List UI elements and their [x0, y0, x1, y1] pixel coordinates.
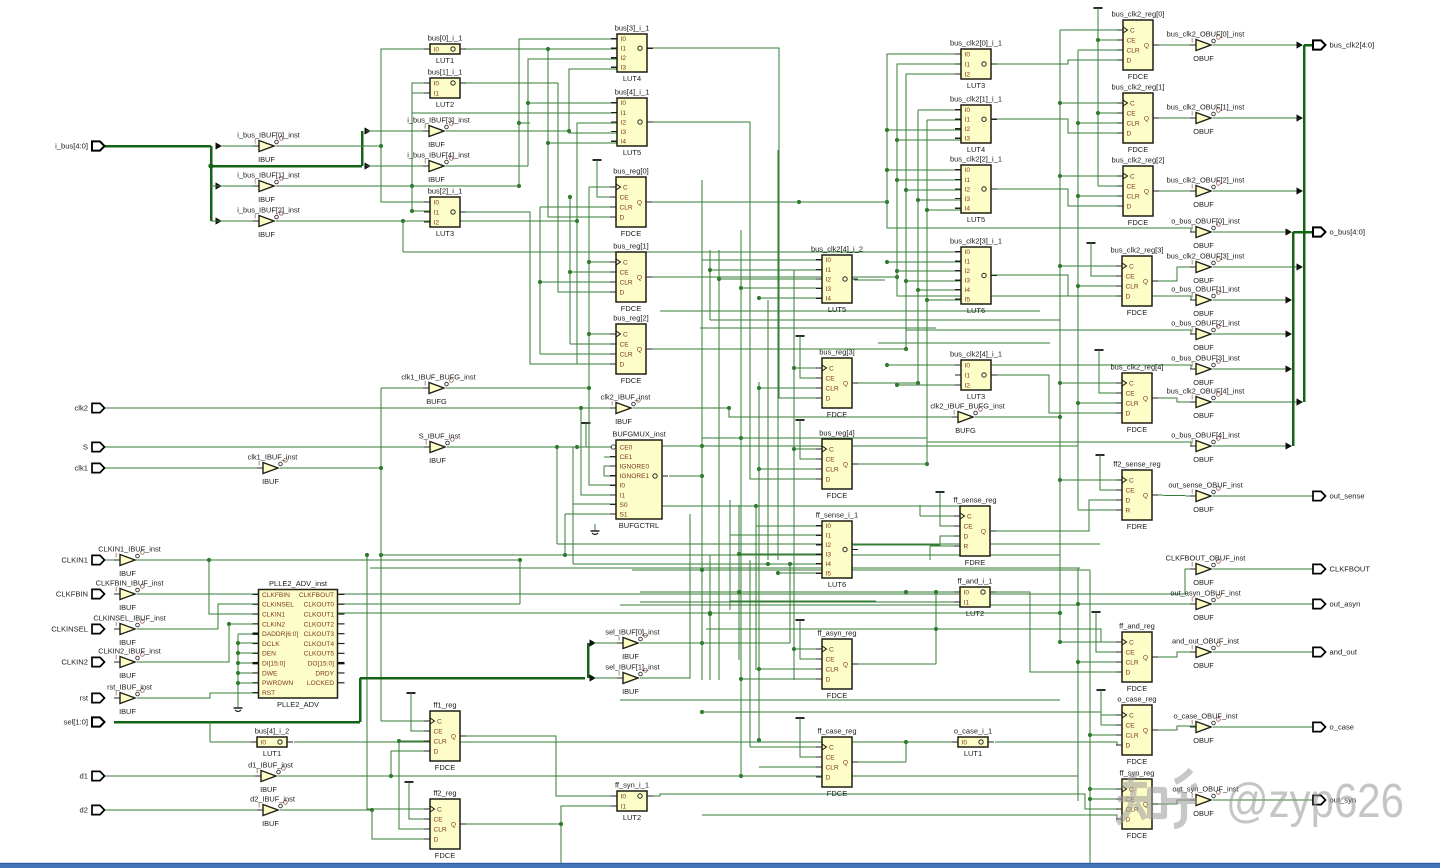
svg-text:R: R — [964, 543, 969, 550]
junction — [1076, 660, 1080, 664]
wire stub I2 feed merged — [556, 543, 558, 545]
junction — [1088, 787, 1092, 791]
junction — [1096, 38, 1100, 42]
wire to ff2_reg CLR — [399, 741, 430, 829]
svg-text:BUFG: BUFG — [426, 397, 447, 406]
svg-text:LUT2: LUT2 — [623, 813, 641, 822]
svg-text:CLKFBOUT: CLKFBOUT — [1330, 565, 1371, 574]
junction — [379, 553, 383, 557]
svg-text:bus_clk2[4]_i_1: bus_clk2[4]_i_1 — [950, 350, 1002, 359]
svg-text:ff2_reg: ff2_reg — [433, 789, 456, 798]
svg-text:I2: I2 — [965, 268, 971, 275]
svg-text:I: I — [1191, 225, 1193, 232]
wire tie to ff1_reg CE — [411, 693, 430, 731]
svg-text:C: C — [829, 744, 834, 751]
junction — [934, 627, 938, 631]
buffer and_out_OBUF_inst (OBUF) — [1172, 637, 1239, 671]
svg-text:I: I — [254, 139, 256, 146]
svg-text:out_asyn: out_asyn — [1330, 600, 1361, 609]
svg-text:I2: I2 — [621, 55, 627, 62]
svg-text:ff_and_reg: ff_and_reg — [1119, 622, 1155, 631]
svg-text:I: I — [425, 440, 427, 447]
svg-text:IBUF: IBUF — [428, 175, 445, 184]
svg-text:D: D — [620, 289, 625, 296]
svg-text:CE: CE — [1127, 110, 1137, 117]
wire to bus_reg[3] C — [794, 367, 822, 369]
wire clock rail x1060 — [1059, 30, 1061, 642]
port out_syn — [1313, 795, 1356, 804]
junction — [236, 641, 240, 645]
svg-text:IGNORE1: IGNORE1 — [620, 473, 650, 480]
wire to bus_clk2[1]_i_1 I3 — [897, 139, 961, 141]
FDCE bus_clk2_reg[3] — [1111, 246, 1164, 317]
wire to BUFGMUX S1 — [565, 513, 616, 515]
wire to bus[3]_i_1 I3 — [569, 69, 617, 131]
wire clk2 from port to IBUF — [104, 407, 616, 409]
svg-text:CLKINSEL_IBUF_inst: CLKINSEL_IBUF_inst — [93, 614, 165, 623]
wire to o_bus_OBUF[0] — [887, 202, 1196, 232]
svg-text:i_bus_IBUF[0]_inst: i_bus_IBUF[0]_inst — [237, 131, 299, 140]
junction — [559, 822, 563, 826]
wire long y446 — [620, 445, 1078, 447]
svg-text:IBUF: IBUF — [622, 652, 639, 661]
svg-text:d1: d1 — [80, 772, 88, 781]
svg-text:I4: I4 — [965, 206, 971, 213]
svg-text:CLR: CLR — [1126, 283, 1139, 290]
wire clk1 BUFG out — [446, 387, 589, 389]
arrow into o_bus bus — [1286, 442, 1293, 449]
LUT3 bus_clk2[0]_i_1 — [950, 39, 1002, 90]
svg-text:I1: I1 — [965, 61, 971, 68]
port i_bus[4:0] — [55, 141, 104, 150]
wire CLKIN2 to PLLE2 — [137, 624, 258, 662]
svg-text:CE: CE — [1127, 37, 1137, 44]
svg-text:I: I — [254, 179, 256, 186]
svg-text:CE: CE — [1126, 722, 1136, 729]
junction — [389, 774, 393, 778]
junction — [727, 406, 731, 410]
svg-text:C: C — [623, 331, 628, 338]
wire bus_clk2_reg[1] Q to OBUF — [1153, 117, 1196, 119]
buffer clk2_IBUF_inst (IBUF) — [601, 393, 651, 427]
svg-text:bus_clk2_reg[2]: bus_clk2_reg[2] — [1112, 156, 1165, 165]
svg-text:CLR: CLR — [1127, 47, 1140, 54]
wire to bus_clk2[2]_i_1 I0 — [887, 169, 961, 171]
wire sel_IBUF[0] out — [640, 642, 702, 644]
wire BUFGMUX IGNORE1 stub — [604, 475, 616, 477]
wire long y328 — [700, 327, 936, 329]
wire long y506 — [620, 505, 960, 507]
junction — [757, 467, 761, 471]
svg-text:bus_clk2[3]_i_1: bus_clk2[3]_i_1 — [950, 237, 1002, 246]
svg-text:FDCE: FDCE — [435, 851, 455, 860]
svg-text:I: I — [1191, 260, 1193, 267]
junction — [1076, 194, 1080, 198]
svg-text:I: I — [1191, 184, 1193, 191]
svg-text:FDCE: FDCE — [827, 410, 847, 419]
wire ff_asyn Q loop — [935, 592, 937, 664]
wire vertical x403 — [402, 221, 404, 252]
junction — [379, 144, 383, 148]
wire long y544 (ff_sense I2 feed) — [557, 543, 1100, 545]
svg-text:and_out: and_out — [1330, 648, 1358, 657]
wire to bus_clk2[4]_i_2 I3 — [741, 287, 822, 289]
svg-text:D: D — [826, 395, 831, 402]
FDCE o_case_reg — [1116, 695, 1158, 766]
svg-text:I3: I3 — [826, 286, 832, 293]
junction — [568, 195, 572, 199]
svg-text:FDCE: FDCE — [1128, 145, 1148, 154]
wire mesh vertical x918 — [917, 110, 919, 383]
svg-text:bus_clk2[4]_i_2: bus_clk2[4]_i_2 — [811, 245, 863, 254]
svg-text:S: S — [83, 443, 88, 452]
junction — [788, 562, 792, 566]
buffer CLKIN2_IBUF_inst (IBUF) — [98, 647, 160, 681]
junction — [587, 260, 591, 264]
wire stub — [459, 206, 461, 208]
junction — [766, 562, 770, 566]
junction — [397, 739, 401, 743]
svg-text:I0: I0 — [965, 51, 971, 58]
wire d1 to ff1_reg D — [391, 751, 430, 776]
wire bus[3]_i_1 O to bus_reg[3] D — [648, 48, 822, 398]
junction — [754, 504, 758, 508]
port out_asyn — [1313, 599, 1360, 608]
wire long y815 to ff_syn_reg D — [702, 815, 1122, 819]
arrow into o_bus bus — [1286, 365, 1293, 372]
wire to bus[4]_i_1 I1 — [412, 112, 617, 114]
wire into bus[4]_i_2 — [210, 741, 257, 743]
svg-text:CE: CE — [1127, 183, 1137, 190]
svg-text:CLKFBIN_IBUF_inst: CLKFBIN_IBUF_inst — [96, 579, 164, 588]
svg-text:bus_reg[2]: bus_reg[2] — [613, 314, 648, 323]
junction — [895, 383, 899, 387]
svg-text:CLKIN1: CLKIN1 — [262, 611, 285, 618]
svg-text:C: C — [829, 365, 834, 372]
wire to bus_reg[3] CLR — [759, 387, 822, 389]
wire to ff_sense_reg R — [930, 545, 960, 547]
junction — [885, 168, 889, 172]
svg-text:CE: CE — [620, 341, 630, 348]
wire to ff_case_reg D — [741, 775, 822, 777]
wire sel bus from port — [114, 721, 360, 724]
svg-text:I0: I0 — [621, 36, 627, 43]
svg-text:bus_reg[1]: bus_reg[1] — [613, 242, 648, 251]
junction — [546, 141, 550, 145]
wire o_case_i_1 O to o_case_reg D — [995, 742, 1122, 745]
svg-text:I0: I0 — [826, 523, 832, 530]
buffer sel_IBUF[0]_inst (IBUF) — [605, 628, 659, 662]
wire to bus[1]_i_1 I0 — [412, 83, 430, 186]
junction — [885, 128, 889, 132]
svg-text:D: D — [1127, 130, 1132, 137]
buffer CLKFBOUT_OBUF_inst (OBUF) — [1166, 554, 1246, 588]
BUFGCTRL BUFGMUX_inst — [610, 430, 668, 530]
wire to bus_clk2_reg[0] C — [1060, 29, 1123, 31]
svg-text:bus_clk2_OBUF[2]_inst: bus_clk2_OBUF[2]_inst — [1167, 176, 1245, 185]
LUT2 bus[1]_i_1 — [424, 68, 466, 109]
wire long y320 — [710, 319, 1060, 321]
svg-text:i_bus[4:0]: i_bus[4:0] — [55, 142, 88, 151]
svg-text:bus_clk2_reg[1]: bus_clk2_reg[1] — [1112, 83, 1165, 92]
wire clk rail x589 — [588, 187, 590, 388]
svg-text:I4: I4 — [621, 139, 627, 146]
svg-text:CLKOUT3: CLKOUT3 — [304, 631, 335, 638]
wire bus_clk2 bus vertical — [1303, 45, 1306, 402]
wire to bus_clk2[3]_i_1 I2 — [897, 270, 961, 272]
junction — [934, 590, 938, 594]
junction — [236, 671, 240, 675]
LUT5 bus_clk2[4]_i_2 — [811, 245, 863, 314]
junction — [587, 386, 591, 390]
svg-text:I1: I1 — [621, 46, 627, 53]
wire bus[4]_i_1 O to bus_reg[4] D — [648, 122, 822, 479]
arrow into bus_clk2 bus — [1297, 187, 1304, 194]
wire tie to ff_sense_reg CE — [940, 492, 960, 526]
wire to bus[0]_i_1 I0 — [381, 49, 430, 146]
junction — [757, 296, 761, 300]
svg-text:D: D — [1126, 669, 1131, 676]
svg-text:C: C — [829, 446, 834, 453]
svg-text:FDCE: FDCE — [1127, 757, 1147, 766]
svg-text:d1_IBUF_inst: d1_IBUF_inst — [248, 761, 293, 770]
svg-text:bus_reg[3]: bus_reg[3] — [819, 348, 854, 357]
buffer sel_IBUF[1]_inst (IBUF) — [605, 663, 659, 697]
svg-text:IBUF: IBUF — [119, 569, 136, 578]
svg-text:OBUF: OBUF — [1193, 54, 1214, 63]
junction — [739, 774, 743, 778]
wire to bus_clk2_reg[0] CE — [1098, 39, 1123, 41]
svg-text:IBUF: IBUF — [119, 707, 136, 716]
svg-text:C: C — [1130, 100, 1135, 107]
svg-text:I0: I0 — [261, 739, 267, 746]
wire ff_asyn_reg Q out — [853, 663, 936, 665]
junction — [538, 280, 542, 284]
wire i_bus_IBUF[2] out — [276, 220, 577, 222]
svg-text:CLKOUT0: CLKOUT0 — [304, 602, 335, 609]
svg-text:I: I — [1191, 362, 1193, 369]
wire vertical x381 down to bus[2]_i_1 I0 — [381, 146, 430, 202]
svg-text:CE: CE — [826, 656, 836, 663]
wire S_IBUF out to BUFGMUX CE0 — [447, 446, 616, 448]
wire rail x750b — [749, 560, 751, 655]
svg-text:OBUF: OBUF — [1193, 736, 1214, 745]
svg-text:FDCE: FDCE — [621, 304, 641, 313]
wire rail x710 — [709, 250, 711, 320]
svg-text:o_bus_OBUF[1]_inst: o_bus_OBUF[1]_inst — [1171, 285, 1240, 294]
buffer o_bus_OBUF[1]_inst (OBUF) — [1171, 285, 1240, 319]
svg-text:OBUF: OBUF — [1193, 809, 1214, 818]
junction — [1088, 797, 1092, 801]
wire tie to ff2_sense_reg CE — [1100, 455, 1122, 490]
wire BUFGMUX CE1 stub — [604, 456, 616, 458]
svg-text:I3: I3 — [826, 552, 832, 559]
wire long y438 — [702, 437, 927, 439]
wire vertical — [560, 824, 562, 865]
wire to bus_reg[2] C — [589, 333, 616, 335]
junction — [904, 279, 908, 283]
svg-text:IGNORE0: IGNORE0 — [620, 464, 650, 471]
svg-text:C: C — [623, 184, 628, 191]
FDRE ff2_sense_reg — [1113, 460, 1160, 531]
svg-text:bus_clk2_OBUF[1]_inst: bus_clk2_OBUF[1]_inst — [1167, 103, 1245, 112]
junction — [895, 269, 899, 273]
wire to bus_clk2_reg[2] C — [1060, 175, 1123, 177]
svg-text:out_sense: out_sense — [1330, 492, 1365, 501]
wire from sel bus — [209, 722, 211, 742]
junction — [568, 270, 572, 274]
port S — [83, 442, 105, 451]
svg-text:ff_syn_i_1: ff_syn_i_1 — [615, 781, 649, 790]
arrow into i_bus_IBUF[3] — [365, 127, 372, 134]
svg-text:D: D — [1126, 410, 1131, 417]
svg-text:I: I — [1191, 597, 1193, 604]
wire bus_clk2_reg[4] Q to OBUF — [1152, 398, 1196, 402]
port d2 — [80, 805, 105, 814]
svg-text:ff1_reg: ff1_reg — [433, 701, 456, 710]
wire CLKIN1 IBUF out — [137, 559, 209, 561]
buffer out_syn_OBUF_inst (OBUF) — [1172, 785, 1238, 819]
svg-text:bus[0]_i_1: bus[0]_i_1 — [428, 34, 463, 43]
LUT3 bus[2]_i_1 — [424, 187, 466, 238]
wire and_out to port — [1213, 651, 1313, 653]
svg-text:CE: CE — [826, 375, 836, 382]
wire clk1 from port to IBUF — [104, 467, 263, 469]
wire PLLE2 CLKOUT0 — [337, 603, 520, 605]
wire ff_case_reg Q out — [853, 761, 906, 763]
wire CLR rail x1078 — [1077, 50, 1079, 510]
svg-text:FDCE: FDCE — [827, 491, 847, 500]
svg-text:FDCE: FDCE — [827, 789, 847, 798]
wire to PLLE2 PWRDWN — [238, 682, 258, 684]
wire long y700 — [620, 699, 1060, 701]
wire vertical — [740, 741, 742, 776]
wire to bus_clk2[4]_i_1 I0 — [887, 364, 961, 366]
arrow into bus_clk2 bus — [1297, 263, 1304, 270]
wire i_bus_IBUF[4] out — [446, 165, 528, 167]
svg-text:I0: I0 — [965, 167, 971, 174]
svg-text:I1: I1 — [965, 259, 971, 266]
port out_sense — [1313, 491, 1365, 500]
buffer bus_clk2_OBUF[0]_inst (OBUF) — [1167, 30, 1245, 64]
svg-text:CLR: CLR — [1126, 659, 1139, 666]
port and_out — [1313, 647, 1358, 656]
svg-text:OBUF: OBUF — [1193, 455, 1214, 464]
svg-text:D: D — [620, 214, 625, 221]
svg-text:CLKOUT4: CLKOUT4 — [304, 641, 335, 648]
wire to bus_reg[0] CLR — [540, 206, 616, 208]
svg-text:OBUF: OBUF — [1193, 200, 1214, 209]
wire to bus_clk2[1]_i_1 I0 — [918, 109, 961, 111]
wire bus_reg[2] Q out — [647, 348, 906, 350]
svg-text:LUT5: LUT5 — [828, 305, 846, 314]
svg-text:I0: I0 — [965, 107, 971, 114]
svg-text:IBUF: IBUF — [258, 230, 275, 239]
port rst — [80, 693, 105, 702]
svg-text:LUT5: LUT5 — [623, 148, 641, 157]
svg-text:DO[15:0]: DO[15:0] — [308, 661, 335, 668]
arrow into bus_clk2 bus — [1297, 114, 1304, 121]
svg-text:FDRE: FDRE — [965, 558, 985, 567]
wire to o_bus_OBUF[3] — [918, 365, 1196, 383]
const1 tie top right — [1094, 7, 1103, 9]
port CLKINSEL — [51, 624, 104, 633]
svg-text:CLKFBIN: CLKFBIN — [56, 590, 88, 599]
wire to ff_sense_i_1 I5 — [778, 572, 822, 574]
port CLKFBOUT — [1313, 564, 1370, 573]
junction — [925, 298, 929, 302]
svg-text:d2_IBUF_inst: d2_IBUF_inst — [250, 795, 295, 804]
FDCE bus_reg[2] — [610, 314, 652, 385]
wire to ff2_sense_reg R — [1078, 509, 1122, 511]
wire tie to bus_reg[0] CE — [597, 160, 616, 197]
wire BUFGMUX IGNORE0 stub — [604, 465, 616, 467]
svg-text:DRDY: DRDY — [315, 670, 334, 677]
svg-text:I0: I0 — [826, 257, 832, 264]
junction — [207, 558, 211, 562]
svg-text:I0: I0 — [962, 739, 968, 746]
svg-text:CLKOUT5: CLKOUT5 — [304, 651, 335, 658]
wire tie to bus_reg[3] CE — [800, 336, 822, 378]
svg-text:C: C — [437, 718, 442, 725]
wire to PLLE2 DCLK — [238, 642, 258, 644]
svg-text:CE: CE — [434, 728, 444, 735]
wire tie to bus_clk2_reg[3] CE — [1091, 243, 1122, 276]
svg-text:CLKIN2: CLKIN2 — [262, 621, 285, 628]
junction — [776, 571, 780, 575]
svg-text:BUFG: BUFG — [955, 426, 976, 435]
wire sel_IBUF0 out extension — [640, 642, 790, 644]
svg-text:o_bus_OBUF[0]_inst: o_bus_OBUF[0]_inst — [1171, 217, 1240, 226]
wire rail x1090 — [1089, 570, 1091, 867]
wire to o_bus_OBUF[1] — [897, 277, 1196, 300]
LUT1 o_case_i_1 — [952, 727, 994, 758]
svg-text:OBUF: OBUF — [1193, 127, 1214, 136]
junction — [401, 219, 405, 223]
wire rail x756 low — [755, 526, 757, 670]
wire to bus_clk2_reg[3] C — [1060, 265, 1122, 267]
junction — [885, 200, 889, 204]
svg-text:CLR: CLR — [1127, 120, 1140, 127]
wire ff1_reg Q to ff_syn_i_1 I0 — [461, 736, 617, 796]
svg-text:LUT4: LUT4 — [623, 74, 641, 83]
svg-text:R: R — [1126, 507, 1131, 514]
svg-text:FDCE: FDCE — [1127, 425, 1147, 434]
wire d2 out — [280, 809, 372, 811]
svg-text:clk1_IBUF_inst: clk1_IBUF_inst — [248, 453, 298, 462]
svg-text:RST: RST — [262, 690, 275, 697]
ground below PLLE2 — [234, 701, 243, 712]
wire to bus[4]_i_1 I0 — [528, 102, 617, 104]
svg-text:C: C — [1129, 639, 1134, 646]
wire clk2 to BUFGMUX I1 — [581, 408, 616, 495]
const1 tie above bus_reg[3] — [796, 335, 805, 337]
LUT1 bus[0]_i_1 — [424, 34, 466, 65]
wire rail x794 — [793, 270, 795, 680]
wire bus[1]_i_1 O out — [460, 82, 558, 84]
svg-text:PWRDWN: PWRDWN — [262, 680, 293, 687]
wire to ff_sense_reg C — [920, 515, 960, 517]
svg-text:C: C — [1129, 263, 1134, 270]
wire rail x719 low — [718, 560, 720, 680]
svg-text:I1: I1 — [826, 267, 832, 274]
svg-text:FDRE: FDRE — [1127, 522, 1147, 531]
svg-text:o_bus_OBUF[4]_inst: o_bus_OBUF[4]_inst — [1171, 431, 1240, 440]
wire to bus_clk2[0]_i_1 I2 — [906, 74, 961, 349]
svg-text:Q: Q — [451, 733, 456, 740]
wire to bus_reg[2] CE — [570, 343, 616, 345]
wire CLKFBIN to PLLE2 — [137, 593, 258, 595]
